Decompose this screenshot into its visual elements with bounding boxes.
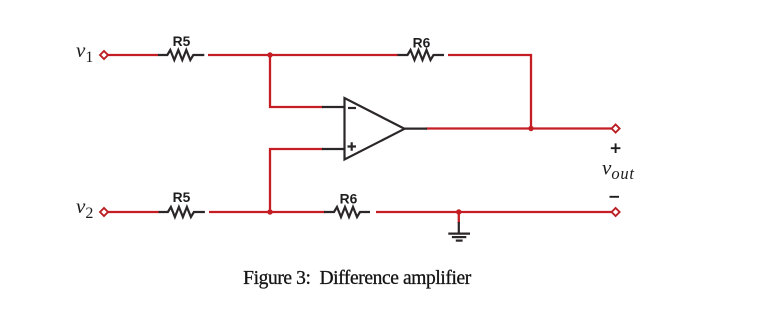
wire node A down bbox=[270, 55, 323, 107]
resistor R6 top bbox=[398, 50, 445, 60]
wire plus input stub bbox=[322, 148, 345, 150]
wire ground stub red bbox=[458, 212, 460, 223]
svg-text:v2: v2 bbox=[76, 194, 93, 222]
node junction ground bbox=[456, 209, 461, 214]
wire R5 to R6 top bbox=[208, 54, 398, 56]
op-amp plus pin mark bbox=[348, 142, 357, 151]
svg-text:vout: vout bbox=[602, 156, 635, 184]
wire R6 top to right corner bbox=[448, 54, 532, 56]
node junction top left bbox=[267, 52, 272, 57]
wire opamp output to vout bbox=[426, 127, 612, 129]
wire output stub bbox=[403, 128, 427, 130]
node junction output bbox=[528, 126, 533, 131]
resistor R5 bottom bbox=[159, 207, 205, 217]
wire node B up to plus input bbox=[270, 149, 323, 212]
resistor R5 top bbox=[158, 50, 204, 60]
terminal v1 bbox=[100, 51, 108, 59]
caption: Figure 3: Difference amplifier bbox=[0, 268, 714, 290]
wire R6 bottom to vout minus bbox=[376, 211, 612, 213]
svg-text:R5: R5 bbox=[173, 34, 191, 49]
svg-text:v1: v1 bbox=[76, 38, 93, 66]
svg-text:R6: R6 bbox=[340, 192, 358, 207]
wire R5 to R6 bottom bbox=[209, 211, 325, 213]
label minus sign output bbox=[610, 196, 620, 198]
wire minus input stub bbox=[322, 106, 345, 108]
terminal vout minus bbox=[612, 208, 620, 216]
label plus sign output bbox=[611, 143, 621, 153]
op-amp minus pin mark bbox=[348, 107, 356, 109]
terminal v2 bbox=[100, 208, 108, 216]
svg-text:R6: R6 bbox=[413, 36, 431, 51]
svg-text:R5: R5 bbox=[173, 190, 191, 205]
wire v2 to R5 bbox=[108, 211, 159, 213]
wire right vertical feedback bbox=[530, 54, 532, 129]
resistor R6 bottom bbox=[324, 207, 370, 217]
op-amp U1 bbox=[345, 98, 405, 160]
terminal vout plus bbox=[612, 125, 620, 133]
ground bbox=[448, 222, 470, 241]
wire v1 to R5 bbox=[108, 54, 158, 56]
node junction bottom left bbox=[267, 209, 272, 214]
